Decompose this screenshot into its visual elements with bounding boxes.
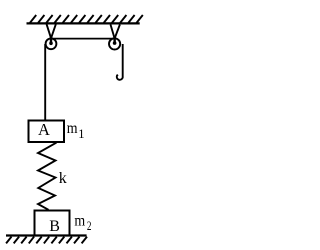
left pulley axle	[49, 42, 53, 46]
svg-text:k: k	[59, 170, 67, 187]
left pulley	[46, 38, 57, 49]
left pulley bracket	[47, 24, 56, 43]
rope between pulleys	[51, 38, 115, 40]
svg-text:2: 2	[87, 219, 92, 233]
ground hatching	[6, 237, 87, 244]
spring	[38, 143, 57, 210]
svg-text:1: 1	[78, 127, 84, 141]
right rope with hook	[117, 44, 123, 80]
ground line	[6, 234, 87, 236]
svg-text:A: A	[38, 120, 50, 139]
right pulley axle	[113, 41, 117, 45]
block B	[35, 211, 70, 236]
right pulley bracket	[111, 25, 120, 43]
left rope to block A	[44, 44, 46, 120]
ceiling hatching	[30, 15, 143, 23]
svg-text:m: m	[67, 120, 78, 137]
svg-text:B: B	[49, 218, 60, 235]
ceiling line	[27, 22, 140, 24]
right pulley	[109, 38, 120, 49]
block A	[29, 121, 65, 143]
svg-text:m: m	[74, 212, 85, 229]
